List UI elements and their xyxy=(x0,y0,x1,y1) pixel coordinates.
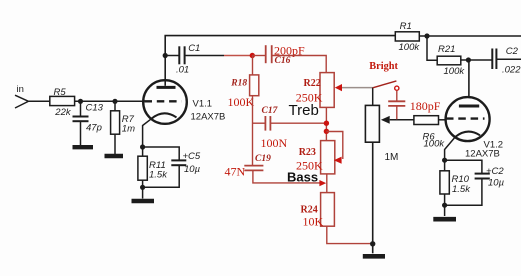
resistor R18 xyxy=(228,56,259,110)
wire red segment into node A xyxy=(224,55,252,57)
svg-text:47p: 47p xyxy=(86,123,102,134)
node R10 bottom junction xyxy=(442,203,447,208)
svg-text:C19: C19 xyxy=(255,154,271,164)
node V1.2 cathode junction xyxy=(442,158,447,163)
capacitor C19 xyxy=(225,154,272,179)
svg-text:100k: 100k xyxy=(424,139,446,150)
capacitor C5 xyxy=(143,147,201,187)
svg-text:10µ: 10µ xyxy=(488,178,505,189)
capacitor C2 coupling xyxy=(492,46,521,75)
svg-text:Treb: Treb xyxy=(289,102,319,119)
wire C19 to bass node with arrow xyxy=(253,170,326,186)
svg-text:C2: C2 xyxy=(506,46,519,57)
svg-text:R18: R18 xyxy=(230,79,247,89)
ground bottom middle xyxy=(363,254,385,259)
svg-text:+C2: +C2 xyxy=(486,166,504,177)
svg-text:1.5k: 1.5k xyxy=(149,170,168,181)
node C wiper junction xyxy=(324,129,329,134)
svg-text:C1: C1 xyxy=(188,43,200,54)
capacitor C13 xyxy=(73,101,104,145)
wire R22 wiper to volume pot xyxy=(342,87,373,89)
wire R22 bottom to R23 top xyxy=(325,107,327,140)
wire R24 bottom to ground node xyxy=(327,226,373,243)
resistor R21 xyxy=(427,36,465,77)
svg-text:R1: R1 xyxy=(400,21,412,32)
resistor R10 xyxy=(440,160,471,216)
resistor R11 xyxy=(138,147,168,199)
capacitor C16 xyxy=(252,44,305,66)
svg-text:V1.1: V1.1 xyxy=(193,99,213,110)
svg-text:180pF: 180pF xyxy=(410,99,441,113)
wire V1.1 plate to top rail xyxy=(165,36,395,56)
node C1 junction xyxy=(163,53,168,58)
resistor R6 xyxy=(390,116,446,150)
svg-text:R21: R21 xyxy=(438,44,455,55)
wire R18 bottom down to C19 xyxy=(252,96,254,165)
svg-text:Bright: Bright xyxy=(369,61,398,72)
resistor R24 xyxy=(301,193,335,229)
potentiometer R22 Treb xyxy=(289,73,343,120)
svg-text:Bass: Bass xyxy=(287,169,318,184)
svg-text:47N: 47N xyxy=(225,165,246,179)
svg-text:C16: C16 xyxy=(275,56,291,66)
wire R21 to C2 xyxy=(461,59,492,61)
node C13 junction xyxy=(78,99,83,104)
svg-text:.022: .022 xyxy=(502,64,521,75)
svg-text:1M: 1M xyxy=(385,152,399,163)
node A tone stack input xyxy=(250,53,255,58)
svg-text:1m: 1m xyxy=(122,123,135,134)
capacitor 180pF xyxy=(388,99,441,119)
wire V1.2 plate lead xyxy=(468,60,470,97)
potentiometer R23 Bass xyxy=(287,132,343,185)
node R11 bottom junction xyxy=(140,185,145,190)
ground under R11 xyxy=(132,199,155,203)
svg-text:100N: 100N xyxy=(261,136,288,150)
svg-text:C13: C13 xyxy=(86,102,104,113)
svg-text:in: in xyxy=(17,84,24,95)
capacitor C2 bypass xyxy=(445,160,505,205)
svg-text:100k: 100k xyxy=(444,66,466,77)
ground under R7 xyxy=(105,154,124,158)
wire C1 to tone stack node xyxy=(185,55,224,57)
ground under C13 xyxy=(73,145,94,149)
svg-text:R23: R23 xyxy=(299,147,316,158)
svg-text:10µ: 10µ xyxy=(184,164,201,175)
svg-text:C17: C17 xyxy=(262,106,279,116)
node B C17 junction xyxy=(324,121,329,126)
triode V1.1 xyxy=(143,56,226,148)
capacitor C17 xyxy=(253,106,327,150)
wire C16 to R22 top xyxy=(272,56,327,73)
resistor R1 xyxy=(395,21,420,53)
svg-text:10K: 10K xyxy=(303,214,324,228)
node V1.1 cathode junction xyxy=(140,144,145,149)
wire input to R5 xyxy=(29,100,51,102)
node R7 junction xyxy=(112,99,117,104)
wire R23 bottom to R24 top xyxy=(326,174,328,193)
svg-text:100k: 100k xyxy=(399,42,421,53)
svg-text:R5: R5 xyxy=(54,87,67,98)
node V1.2 plate junction xyxy=(466,57,471,62)
node ground junction xyxy=(370,241,375,246)
ground under R10 xyxy=(433,217,456,222)
resistor R7 xyxy=(111,101,135,154)
node R1 output junction xyxy=(424,33,429,38)
svg-text:12AX7B: 12AX7B xyxy=(191,112,226,123)
wire R1 to right edge xyxy=(419,35,521,37)
capacitor C1 xyxy=(165,43,200,76)
resistor R5 xyxy=(50,87,75,118)
bright switch xyxy=(369,61,399,101)
svg-text:12AX7B: 12AX7B xyxy=(465,149,500,160)
svg-text:.01: .01 xyxy=(176,65,189,76)
svg-text:+C5: +C5 xyxy=(183,151,201,162)
potentiometer 1M volume xyxy=(365,88,398,254)
wire R5 to V1.1 grid xyxy=(75,100,145,102)
svg-text:1.5k: 1.5k xyxy=(452,184,471,195)
triode V1.2 xyxy=(445,97,503,160)
svg-text:100K: 100K xyxy=(228,95,255,109)
svg-text:R22: R22 xyxy=(304,78,321,89)
input connector IN xyxy=(15,84,29,108)
svg-text:22k: 22k xyxy=(54,107,72,118)
